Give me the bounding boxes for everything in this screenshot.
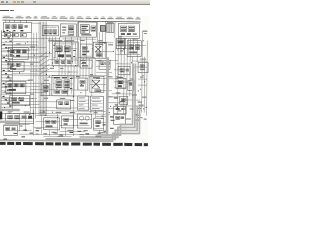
relay box K2 [118,23,139,38]
pipe: staircase step lines bottom-right [0,62,140,141]
wire: horizontal interconnects [1,23,147,137]
pipe: grey hydraulic line P1 [106,57,109,135]
control box U4 [62,116,74,128]
junction dots [4,39,147,119]
pipe: left feed lines [0,110,20,122]
sensor cluster right [138,63,148,73]
relay block K6 [6,81,26,93]
relay block K3 [8,47,28,59]
scan paper background [0,15,150,147]
box at lower-left of tile L [114,106,126,114]
connector CN1 [100,26,105,32]
diagonal merges near center bus [39,52,51,75]
valve block V1 (solenoid pair) [52,42,78,66]
toolbar [0,0,150,5]
relay K5 [118,66,130,74]
sensor S2 [94,118,104,130]
relay K4 (hatched) [116,38,125,48]
pump block (black, left edge) [0,111,2,119]
left mid horizontal wires [13,42,38,74]
table: connector pinout chart 1 [78,96,89,110]
valve block V2 with cross marks [93,42,106,58]
right margin marks lower [138,102,144,109]
wire: ladder rungs with contact symbols [1,31,13,107]
sensor S1 [78,78,88,90]
legend bar: bottom title strip [0,142,148,146]
relay block K1 [3,22,31,32]
switch panel SW1 [3,125,17,135]
node: right margin marks [143,31,148,34]
connector row under K1 [4,33,26,37]
terminal strip TB1 [106,22,114,33]
wire: top main bus line [2,20,140,22]
junction box JB1 [10,95,30,105]
node labels: top net names [2,16,140,20]
bottom area flecks [3,129,101,140]
relay K8 [128,80,134,90]
bus: left terminal ladder rails [1,30,13,109]
node labels above V1 [54,40,74,41]
relay K9 [120,96,128,104]
relay block K3b (left, lower) [8,61,24,71]
connector cluster CN2 [114,114,126,124]
bus: center harness (vertical bundle) [38,22,47,116]
fuse box F1 [42,26,58,36]
cluster below V3 [57,100,71,109]
marks between pipes [114,97,126,109]
relay block K10 [44,118,60,130]
control box U3 [127,40,141,56]
wire: vertical interconnects [19,21,147,137]
connector marks near pipe foot [103,116,115,132]
resistor module R1 [42,84,50,96]
junction box JB2 [6,113,34,123]
valve block V3 (main) [52,76,74,96]
controller U2 with inner board [78,22,96,37]
relay K7 [116,77,126,89]
sensor block B8 [80,44,92,58]
gauge cluster G1 [78,114,92,128]
control unit U1 [60,24,76,37]
node labels: scattered designators [5,35,147,137]
sub panel below B8 [80,60,92,68]
small box cluster right of U2 drop [99,60,110,69]
table: connector pinout chart 2 [90,96,103,110]
sensor S3 [136,115,143,121]
wire: drops from bus to K1 [5,20,26,22]
schematic title text [0,10,9,12]
valve block V4 cross [90,76,104,92]
